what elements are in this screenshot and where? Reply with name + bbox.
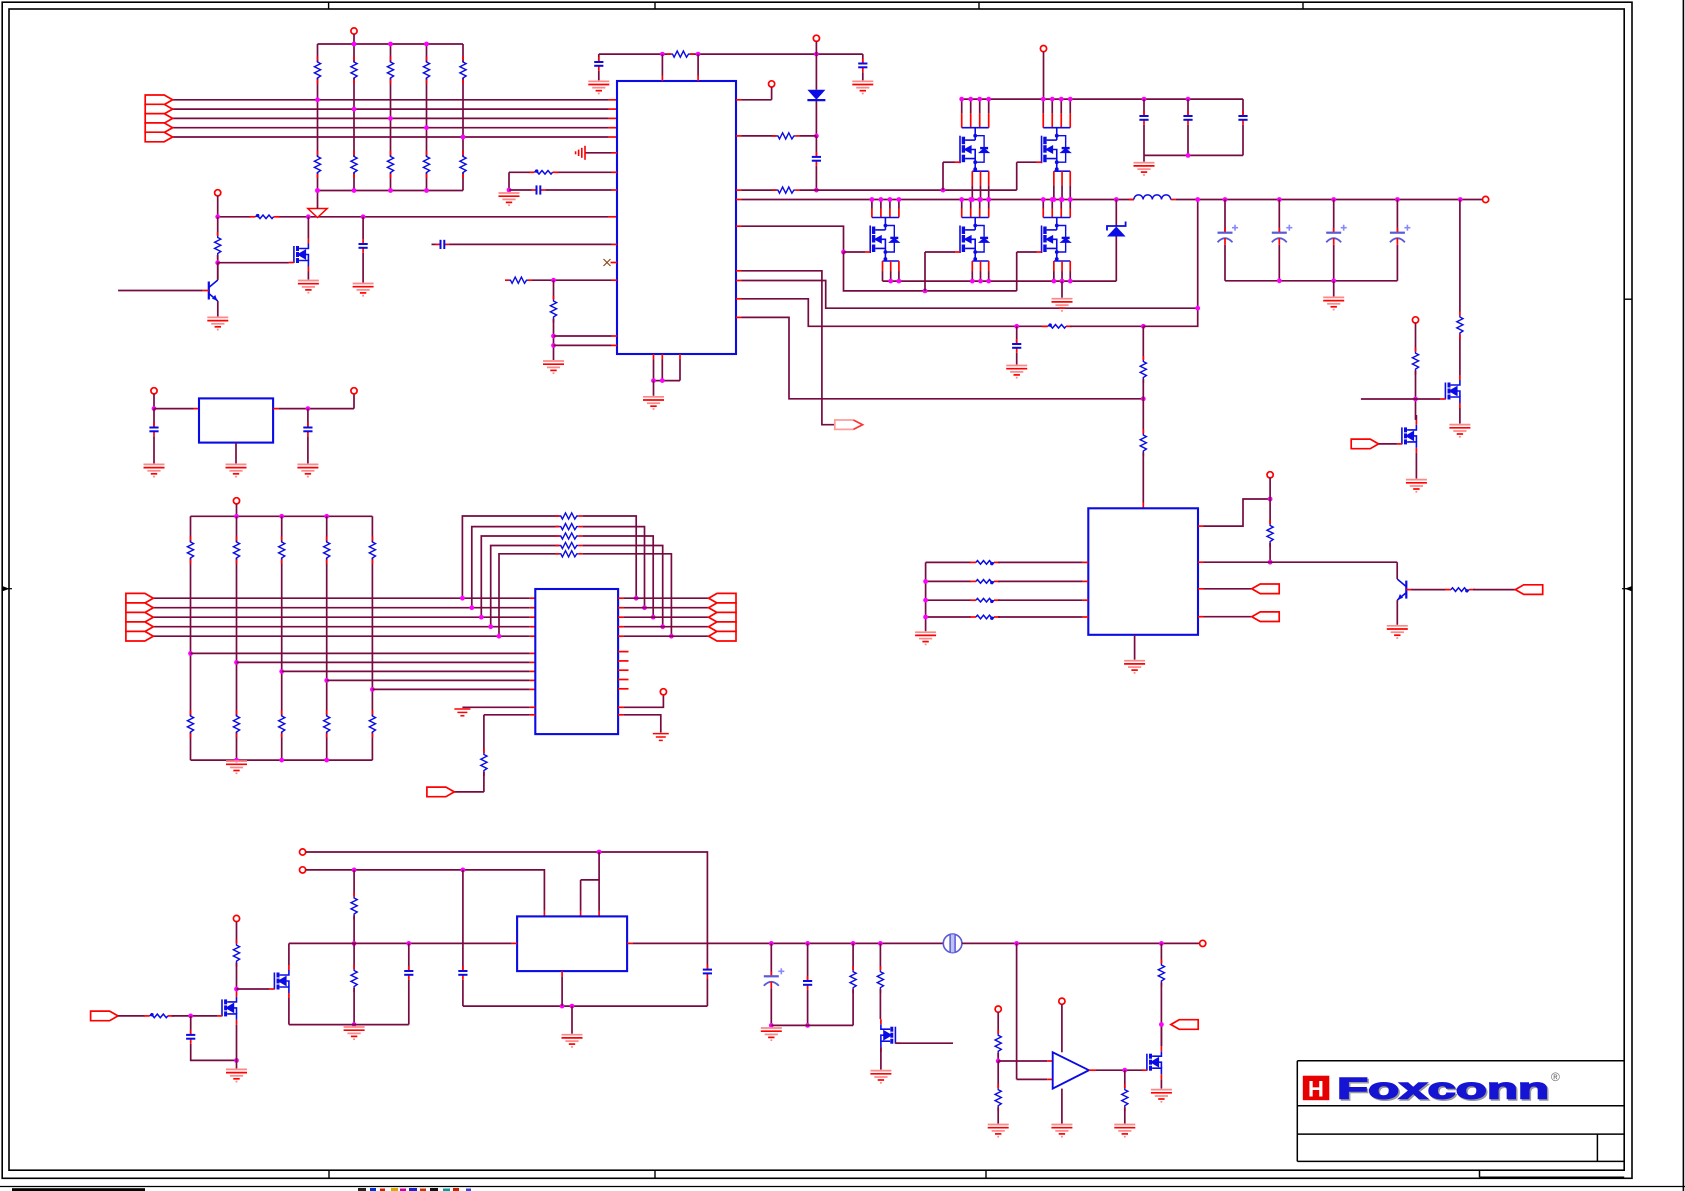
wire fb upper — [742, 299, 1048, 327]
M2 source stubs — [972, 171, 988, 199]
wire — [1115, 200, 1117, 227]
resistor RF2 — [555, 524, 582, 530]
svg-text:®: ® — [1551, 1070, 1560, 1084]
wire — [172, 1015, 217, 1017]
wire — [1396, 200, 1398, 233]
junction gnd rail — [1051, 279, 1056, 284]
junction — [352, 941, 357, 946]
junction switch rail — [897, 197, 902, 202]
wire — [1242, 125, 1244, 156]
ground C9 — [1006, 366, 1027, 378]
wire — [624, 715, 661, 733]
resistor RN3-5 — [369, 537, 375, 564]
wire — [799, 135, 816, 137]
output connector PG — [835, 420, 863, 429]
junction switch rail — [977, 197, 982, 202]
wire — [862, 72, 864, 80]
MOSFET Q8 — [881, 1024, 896, 1047]
pin stub — [612, 243, 618, 245]
ferrite bead FB5 — [144, 1013, 174, 1018]
wire — [532, 279, 612, 281]
wire ls gate bus — [844, 252, 1017, 291]
transistor — [209, 280, 218, 301]
wire — [509, 171, 530, 173]
junction gnd rail — [986, 279, 991, 284]
connector FB — [1171, 1020, 1198, 1030]
diode D1 — [807, 90, 825, 100]
inductor L1 — [1129, 195, 1176, 200]
wire — [307, 436, 309, 463]
wire — [1278, 200, 1280, 233]
junction output rail — [1395, 197, 1400, 202]
junction — [660, 52, 665, 57]
wire — [353, 988, 355, 1025]
capacitor C1 — [594, 57, 603, 71]
power MOSFET M4 — [870, 218, 899, 262]
wire — [1017, 1078, 1048, 1080]
junction top rail — [424, 42, 429, 47]
capacitor C12 — [303, 423, 312, 437]
capacitor C6 — [1139, 111, 1148, 125]
electrolytic capacitor CE2 — [1272, 225, 1293, 245]
MOSFET Q1 — [294, 244, 309, 267]
ground — [499, 193, 520, 205]
wire — [770, 943, 772, 976]
ferrite bead FB22 — [970, 598, 1000, 603]
wire M5 gate riser — [924, 252, 926, 291]
resistor R2 — [772, 133, 799, 139]
junction — [814, 52, 819, 57]
wire U5 gnd pin — [235, 443, 237, 464]
capacitor C10 — [359, 239, 368, 253]
wire — [362, 217, 364, 239]
wire — [1160, 983, 1162, 1047]
wire opamp power — [1061, 1004, 1063, 1052]
wire M4 gate lead — [844, 251, 866, 253]
U3 bottom-left pins — [530, 706, 536, 708]
pin stub — [736, 225, 742, 227]
junction Q1 drain — [306, 214, 311, 219]
wire — [815, 136, 817, 157]
junction out rail — [805, 941, 810, 946]
junction — [1186, 153, 1191, 158]
junction fb right — [669, 634, 674, 639]
wire — [557, 171, 612, 173]
wire Q1 source — [307, 272, 309, 280]
resistor RN2-1 — [314, 151, 320, 178]
wire hs gate net — [799, 189, 1016, 191]
wire sense — [742, 281, 1198, 309]
wire M2 gate riser — [942, 162, 944, 190]
resistor RN2-5 — [460, 151, 466, 178]
wire after fuse — [962, 942, 1200, 944]
wire to Q2 collector — [217, 263, 219, 280]
output connector J3-2 — [709, 603, 736, 613]
wire — [571, 1006, 573, 1034]
wire — [1016, 353, 1018, 365]
input connector J1-3 — [145, 114, 172, 124]
junction gnd rail — [1068, 279, 1073, 284]
output connector J3-3 — [709, 612, 736, 622]
wire — [852, 943, 854, 970]
MOSFET Q5 — [1402, 425, 1417, 448]
junction VCC rail — [1068, 97, 1073, 102]
wire ls gate feed — [742, 226, 844, 252]
resistor R41 — [351, 965, 357, 992]
wire — [1278, 245, 1280, 281]
wire — [997, 1012, 999, 1034]
bus pin stubs into U1 — [609, 99, 617, 101]
resistor R28 — [1457, 312, 1463, 339]
resistor R11 — [215, 232, 221, 259]
border tick right mid-upper — [1624, 298, 1632, 300]
wire — [462, 870, 464, 971]
junction — [352, 868, 357, 873]
wire — [624, 695, 664, 707]
junction — [1413, 397, 1418, 402]
ferrite bead FB20 — [970, 561, 1000, 566]
wire divider chain at x=217.7 — [217, 217, 219, 236]
junction — [651, 378, 656, 383]
junction — [996, 1059, 1001, 1064]
wire U2 sense — [1204, 499, 1271, 526]
ground power stage — [1052, 299, 1073, 311]
wire Q9 drain — [1160, 1025, 1162, 1047]
U3 right nc stubs — [618, 651, 628, 653]
capacitor C23 — [186, 1030, 195, 1044]
wire — [998, 561, 1083, 563]
wire U2 input rail — [925, 562, 927, 631]
wire to connector — [742, 271, 835, 425]
resistor RN4-4 — [324, 711, 330, 738]
junction gnd rail — [1060, 279, 1065, 284]
wire — [1473, 589, 1515, 591]
wire — [1269, 478, 1271, 499]
pin stub opamp out — [1089, 1069, 1096, 1071]
wire — [353, 916, 355, 944]
terminal VREG out — [351, 388, 357, 394]
junction rail2 bottom — [234, 758, 239, 763]
wire — [408, 980, 410, 1025]
terminal VREG in — [151, 388, 157, 394]
schottky diode D2 — [1107, 222, 1126, 237]
resistor R3 — [772, 187, 799, 193]
junction — [923, 615, 928, 620]
M4 drain stubs — [872, 200, 899, 218]
wire — [1379, 443, 1397, 445]
junction out rail — [851, 941, 856, 946]
input connector J1-2 — [145, 104, 172, 114]
resistor RN2-4 — [423, 151, 429, 178]
ferrite bead FB1 — [250, 214, 280, 219]
pin stub — [736, 135, 742, 137]
M6 source stubs — [1054, 261, 1070, 281]
junction — [814, 188, 819, 193]
junction rail2 bottom — [324, 758, 329, 763]
fuse F1 — [943, 934, 962, 953]
wire pullup to VOUT — [1459, 200, 1461, 312]
wire — [1224, 245, 1226, 281]
wire — [1333, 245, 1335, 281]
pin stub U3 — [530, 635, 536, 637]
junction — [1186, 97, 1191, 102]
ground ecap rail — [1323, 297, 1344, 309]
wire Q2 base — [118, 290, 203, 292]
junction divider tap — [352, 107, 357, 112]
capacitor C22 — [703, 965, 712, 979]
resistor RN3-3 — [279, 537, 285, 564]
terminal U2 pullup — [1267, 472, 1273, 478]
divider at x=354.1 — [353, 870, 355, 897]
capacitor C7 — [1183, 111, 1192, 125]
wire — [1224, 200, 1226, 233]
pin stub — [1198, 616, 1204, 618]
wire — [545, 189, 611, 191]
ground out filter — [761, 1028, 782, 1040]
input connector J1-4 — [145, 123, 172, 133]
wire — [236, 504, 238, 516]
terminal VCC2 — [1040, 46, 1046, 52]
M5 drain stubs — [962, 200, 989, 218]
junction — [1122, 1068, 1127, 1073]
junction — [234, 1058, 239, 1063]
wire pin 135.9 — [742, 135, 777, 137]
ground Q2 emitter — [207, 317, 228, 329]
terminal ref divider — [995, 1006, 1001, 1012]
wire U2 gnd pin — [1134, 635, 1136, 660]
junction fb right — [651, 615, 656, 620]
wire ecap ground rail — [1225, 280, 1397, 282]
resistor R45 — [877, 966, 883, 993]
wire — [1115, 237, 1117, 282]
junction switch rail src — [1060, 197, 1065, 202]
MOSFET Q4 — [1445, 380, 1460, 403]
resistor RF5 — [555, 551, 582, 557]
capacitor C24 — [803, 976, 812, 990]
junction switch rail — [986, 197, 991, 202]
junction bottom rail — [424, 188, 429, 193]
junction — [1141, 324, 1146, 329]
wire — [1333, 200, 1335, 233]
wire — [598, 71, 600, 81]
MOSFET Q6 — [222, 997, 237, 1020]
junction output rail — [1277, 197, 1282, 202]
junction comp cap — [1014, 324, 1019, 329]
input connector J2-3 — [126, 612, 153, 622]
junction fb right — [642, 605, 647, 610]
input connector J2-4 — [126, 622, 153, 632]
junction switch rail — [1059, 197, 1064, 202]
M5 source stubs — [972, 261, 988, 281]
ground opamp — [1051, 1125, 1072, 1137]
junction fb right — [634, 596, 639, 601]
pin stub — [612, 152, 618, 154]
terminal VDRV — [813, 35, 819, 41]
ferrite bead FB4 — [1445, 588, 1475, 593]
wire Q7 drain — [288, 943, 290, 965]
border zone ticks top — [329, 2, 1303, 9]
wire — [553, 280, 555, 299]
ground U5 — [226, 464, 247, 476]
wire rail C y=1006.1 — [463, 1005, 708, 1007]
M2 drain stubs — [962, 99, 989, 128]
pin stub U5 out — [273, 408, 279, 410]
wire — [554, 344, 612, 346]
wire — [217, 196, 219, 217]
junction VCC rail — [986, 97, 991, 102]
ferrite bead FB2 — [529, 169, 559, 174]
junction out rail — [878, 941, 883, 946]
wire — [1269, 543, 1271, 562]
junction tap — [188, 651, 193, 656]
resistor R6 — [1140, 430, 1146, 457]
junction — [1268, 560, 1273, 565]
terminal VCC1 — [351, 28, 357, 34]
pin stub U3 — [530, 597, 536, 599]
wire — [1143, 125, 1145, 156]
electrolytic capacitor CE5 — [764, 968, 785, 988]
junction — [1268, 497, 1273, 502]
wire — [1242, 99, 1244, 116]
terminal PWR B — [300, 867, 306, 873]
ground C2 — [852, 81, 873, 93]
junction — [560, 1004, 565, 1009]
resistor RF4 — [555, 542, 582, 548]
junction — [188, 1014, 193, 1019]
wire stub — [432, 243, 436, 245]
no-connect — [604, 259, 611, 266]
wire Q1 drain — [307, 217, 309, 239]
wire — [1187, 125, 1189, 156]
pin stub — [736, 270, 742, 272]
wire U2 output to Q3 — [1204, 561, 1398, 563]
M3 drain stubs — [1043, 99, 1070, 128]
pin stub — [736, 298, 742, 300]
ground C12 — [297, 464, 318, 476]
resistor RN1-1 — [314, 57, 320, 84]
junction switch rail — [1041, 197, 1046, 202]
junction — [1277, 278, 1282, 283]
junction — [570, 1004, 575, 1009]
wire M2 gate lead — [943, 161, 955, 163]
junction VCC rail — [959, 97, 964, 102]
wire — [598, 54, 600, 62]
resistor RN2-2 — [351, 151, 357, 178]
mux U3 — [535, 589, 618, 734]
wire switch node rail — [736, 199, 742, 201]
junction fb left — [469, 605, 474, 610]
junction switch rail src — [986, 197, 991, 202]
wire — [998, 616, 1083, 618]
connector CTL — [1515, 585, 1542, 595]
resistor R5 — [1140, 356, 1146, 383]
wire — [554, 335, 612, 337]
output connector J3-4 — [709, 622, 736, 632]
ground ref — [988, 1125, 1009, 1137]
ground C11 — [144, 464, 165, 476]
wire gate node — [1361, 398, 1441, 400]
wire — [998, 580, 1083, 582]
wire — [1204, 616, 1252, 618]
junction switch rail — [888, 197, 893, 202]
junction top rail — [352, 42, 357, 47]
wire M5 gate lead — [925, 251, 955, 253]
wire — [879, 989, 881, 1019]
pin stub — [612, 171, 618, 173]
wire feedback loop 5 — [499, 554, 559, 636]
wire — [1096, 1069, 1143, 1071]
wire — [1124, 1070, 1126, 1088]
junction — [923, 598, 928, 603]
wire — [1016, 326, 1018, 344]
junction — [1159, 941, 1164, 946]
wire U1 bottom pins — [653, 354, 655, 360]
wire — [1415, 323, 1417, 352]
wire — [1204, 588, 1252, 590]
junction — [597, 850, 602, 855]
wire — [153, 409, 155, 428]
resistor RF1 — [555, 513, 582, 519]
junction — [923, 289, 928, 294]
junction VCC rail — [1059, 97, 1064, 102]
terminal gate pullup — [233, 915, 239, 921]
wire U5 output — [279, 408, 354, 410]
junction divider tap — [388, 116, 393, 121]
output connector J3-5 — [709, 631, 736, 641]
MOSFET Q9 — [1147, 1051, 1162, 1074]
resistor RN4-5 — [369, 711, 375, 738]
junction switch rail — [879, 197, 884, 202]
junction — [841, 250, 846, 255]
wire — [236, 963, 238, 989]
junction C at VCC — [361, 214, 366, 219]
resistor R46 — [995, 1030, 1001, 1057]
capacitor C3 — [812, 152, 821, 166]
junction bottom rail — [352, 188, 357, 193]
wire — [879, 943, 881, 970]
junction divider tap — [315, 97, 320, 102]
wire Q4 source — [1459, 408, 1461, 424]
wire — [462, 980, 464, 1006]
ground Q9 — [1151, 1090, 1172, 1102]
wire output rail — [1176, 199, 1483, 201]
capacitor C8 — [1238, 111, 1247, 125]
junction — [507, 188, 512, 193]
Foxconn logo mark — [1303, 1076, 1330, 1102]
capacitor C4 — [532, 185, 546, 194]
junction switch rail — [959, 197, 964, 202]
wire — [153, 436, 155, 463]
connector SEL — [427, 787, 454, 797]
resistor RF3 — [555, 533, 582, 539]
wire output sense vertical x=1197.7 — [1143, 200, 1197, 327]
wire Q7 source — [288, 998, 290, 1025]
junction — [551, 343, 556, 348]
wire — [483, 715, 485, 753]
wire — [1396, 245, 1398, 281]
pin stub — [1198, 525, 1204, 527]
wire — [653, 381, 655, 396]
junction — [660, 378, 665, 383]
junction divider tap — [424, 125, 429, 130]
section2 bus wires — [153, 597, 530, 599]
bus wires AD[0..4] left — [172, 99, 608, 101]
junction — [215, 214, 220, 219]
resistor R40 — [351, 893, 357, 920]
wire — [1333, 281, 1335, 297]
capacitor C2 — [858, 59, 867, 73]
cropped black bar — [12, 1188, 145, 1191]
